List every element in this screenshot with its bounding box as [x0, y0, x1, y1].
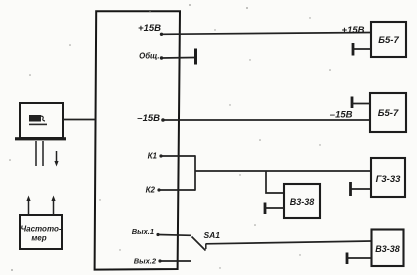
generator G3-33 box	[371, 158, 405, 197]
switch SA1 blade	[192, 237, 206, 251]
svg-text:В3-38: В3-38	[290, 197, 315, 207]
svg-text:Общ.: Общ.	[139, 52, 159, 61]
wire to generator G3-33	[195, 170, 371, 172]
wire Vykh.1 to switch	[158, 234, 191, 237]
freq meter probe wire 1 (up arrow)	[26, 196, 30, 215]
svg-text:Б5-7: Б5-7	[378, 35, 399, 46]
freq meter probe wire 2 (up arrow)	[51, 196, 55, 215]
PSU1 ground terminal bar	[352, 43, 355, 56]
wire common	[162, 57, 195, 60]
wire +15V to PSU1	[162, 33, 372, 35]
bracket joining K1/K2	[194, 155, 196, 190]
G3-33 ground wire	[351, 188, 372, 190]
PSU2 ground wire	[352, 103, 370, 105]
scan specks	[9, 4, 331, 271]
svg-text:–15В: –15В	[137, 113, 160, 124]
down arrow	[54, 151, 58, 167]
svg-text:мер: мер	[31, 234, 46, 243]
svg-text:К2: К2	[146, 186, 156, 195]
wire below stand 1	[35, 141, 37, 166]
wire -15V to PSU2	[163, 119, 370, 121]
V3-38 bottom ground wire	[347, 257, 372, 259]
V3-38 mid ground terminal bar	[264, 203, 267, 215]
svg-text:Б5-7: Б5-7	[378, 108, 399, 119]
common terminal bar	[194, 49, 197, 65]
wire K1	[161, 155, 195, 157]
central block (device under test interface panel)	[95, 11, 180, 269]
V3-38 bottom ground terminal bar	[346, 253, 349, 265]
svg-text:К1: К1	[148, 152, 158, 161]
PSU1 ground wire	[353, 48, 371, 50]
oscilloscope/DUT box	[20, 103, 63, 138]
PSU B5-7 top box	[371, 22, 406, 57]
wire Vykh.2 stub	[160, 260, 191, 262]
V3-38 mid ground wire	[265, 207, 284, 209]
wire switch to V3-38 bottom	[206, 241, 372, 244]
svg-text:В3-38: В3-38	[375, 244, 400, 254]
DUT screen scribble	[29, 115, 47, 125]
PSU B5-7 mid box	[370, 93, 406, 132]
wire below stand 2	[42, 141, 44, 166]
svg-text:+15В: +15В	[342, 25, 365, 36]
wire DUT to central block	[63, 119, 96, 121]
svg-text:Вых.1: Вых.1	[132, 227, 154, 236]
DUT stand bar	[15, 137, 66, 140]
voltmeter V3-38 bottom box	[372, 230, 404, 267]
frequency meter box	[20, 215, 62, 249]
svg-text:–15В: –15В	[330, 110, 353, 121]
svg-text:+15В: +15В	[138, 23, 161, 34]
voltmeter V3-38 mid box	[284, 184, 320, 218]
svg-text:Вых.2: Вых.2	[134, 257, 157, 266]
wire K2	[159, 189, 195, 191]
wire branch down to V3-38 mid	[266, 171, 284, 193]
G3-33 ground terminal bar	[349, 182, 352, 196]
switch output stub	[205, 244, 207, 250]
svg-text:SA1: SA1	[204, 230, 221, 240]
svg-text:Частото-: Частото-	[20, 225, 61, 234]
svg-text:Г3-33: Г3-33	[376, 174, 402, 185]
PSU2 ground terminal bar	[351, 97, 354, 109]
